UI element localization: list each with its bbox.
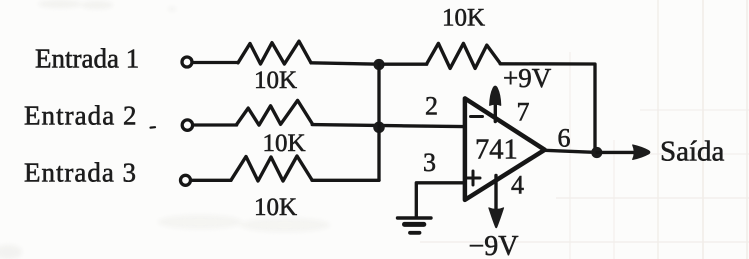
- -9V arrowhead: [489, 208, 504, 228]
- wire: [194, 123, 237, 126]
- wire pin7 +9V stem: [494, 103, 497, 122]
- wire: [192, 179, 232, 182]
- svg-text:−9V: −9V: [469, 231, 519, 259]
- wire pin4 -9V stem: [494, 176, 497, 212]
- svg-text:741: 741: [475, 135, 518, 166]
- svg-text:Entrada 1: Entrada 1: [35, 44, 139, 74]
- output arrowhead: [633, 145, 650, 160]
- resistor R3: [231, 156, 312, 181]
- wire: [312, 179, 379, 182]
- op-amp minus input mark: [471, 115, 483, 118]
- resistor Rf feedback: [427, 43, 501, 68]
- wire: [384, 63, 427, 66]
- resistor R2: [237, 100, 313, 125]
- wire bus: [377, 64, 380, 180]
- wire to Saida arrow: [597, 151, 633, 154]
- svg-text:Entrada 2: Entrada 2: [24, 100, 137, 130]
- ground: [398, 218, 432, 233]
- stray mark: [151, 126, 156, 129]
- svg-text:Entrada 3: Entrada 3: [24, 157, 136, 187]
- svg-text:+9V: +9V: [503, 63, 552, 93]
- resistor R1: [238, 41, 311, 64]
- junction node output: [591, 147, 602, 158]
- svg-text:10K: 10K: [442, 4, 485, 31]
- wire pin2: [312, 125, 463, 127]
- wire: [311, 63, 379, 64]
- wire pin3: [416, 183, 463, 217]
- svg-text:6: 6: [558, 124, 571, 153]
- op-amp U1 741: [465, 98, 545, 199]
- op-amp plus input mark: [466, 171, 480, 185]
- wire output: [545, 150, 597, 152]
- terminal Entrada 3: [181, 175, 191, 185]
- +9V arrowhead: [490, 86, 501, 105]
- svg-text:10K: 10K: [263, 130, 306, 157]
- junction node A: [373, 59, 384, 70]
- svg-text:4: 4: [511, 170, 524, 199]
- svg-text:10K: 10K: [254, 67, 297, 94]
- terminal Entrada 1: [182, 57, 192, 67]
- svg-text:3: 3: [423, 148, 436, 177]
- svg-text:7: 7: [517, 98, 530, 127]
- terminal Entrada 2: [182, 120, 192, 130]
- wire: [193, 61, 239, 64]
- svg-text:2: 2: [425, 92, 438, 121]
- junction node B: [373, 122, 385, 134]
- svg-text:Saída: Saída: [660, 136, 725, 168]
- svg-text:10K: 10K: [254, 194, 297, 221]
- wire feedback top: [500, 64, 595, 153]
